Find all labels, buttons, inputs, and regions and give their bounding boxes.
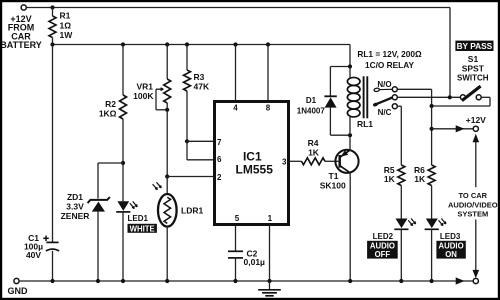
svg-text:D1: D1 [306,96,317,105]
svg-text:1W: 1W [60,30,74,40]
wire [52,251,54,281]
svg-text:R2: R2 [105,99,116,109]
wire pin1 [269,226,271,281]
svg-text:1KΩ: 1KΩ [99,109,117,119]
junction ground bus [165,279,169,283]
wire [431,106,433,165]
capacitor C2 [228,248,265,281]
wire [98,162,123,164]
wire pin4 [235,45,237,101]
svg-text:100K: 100K [133,91,154,101]
junction ground bus [267,279,271,283]
svg-text:1K: 1K [384,174,396,184]
node R2/ZD1/LED1 [121,161,125,165]
svg-text:4: 4 [233,104,238,113]
junction ground bus [233,279,237,283]
svg-text:LED3: LED3 [440,232,461,241]
resistor R4 [302,138,339,165]
node coil bottom [348,133,352,137]
svg-text:1K: 1K [414,174,426,184]
junction ground bus [121,279,125,283]
node switch feed [448,95,452,99]
svg-text:SYSTEM: SYSTEM [457,209,488,218]
svg-text:RL1: RL1 [357,119,373,129]
wire [397,96,460,98]
node rail corner R1 [50,42,54,46]
resistor R3 [184,45,210,142]
svg-text:TO CAR: TO CAR [458,191,487,200]
svg-text:ZD1: ZD1 [67,192,83,202]
node pin2/LDR [165,174,169,178]
svg-text:OFF: OFF [375,250,391,259]
terminal GND output [473,278,478,283]
wire [400,106,402,165]
svg-text:LED2: LED2 [373,232,394,241]
svg-text:BY PASS: BY PASS [457,41,493,51]
svg-text:IC1: IC1 [243,150,262,164]
svg-text:ZENER: ZENER [61,211,90,221]
svg-text:VR1: VR1 [136,81,153,91]
svg-text:6: 6 [217,155,222,164]
svg-text:RL1 = 12V, 200Ω: RL1 = 12V, 200Ω [357,49,422,59]
resistor R5 [384,165,405,219]
relay contact N/O [374,80,398,92]
wire [97,163,99,199]
wire [481,96,490,98]
svg-text:N/O: N/O [377,80,391,89]
relay pole lever [372,95,397,107]
svg-text:1N4007: 1N4007 [297,107,326,116]
svg-text:+12V: +12V [466,115,486,125]
node rail/R3 [185,42,189,46]
svg-text:R3: R3 [194,72,205,82]
wire [52,45,54,243]
svg-text:1: 1 [268,214,273,223]
junction ground bus [50,279,54,283]
svg-text:LM555: LM555 [236,163,274,177]
svg-text:SWITCH: SWITCH [457,74,489,83]
node rail/R2 [121,42,125,46]
svg-text:0,01µ: 0,01µ [244,257,266,267]
wire pin6 [187,159,213,161]
svg-text:SPST: SPST [462,63,485,73]
to car audio/video system [448,134,498,278]
svg-text:3.3V: 3.3V [66,201,84,211]
wire [431,89,433,106]
LED LED3 [425,219,466,282]
resistor R2 [99,45,127,164]
svg-text:LDR1: LDR1 [181,205,203,215]
svg-text:1C/O RELAY: 1C/O RELAY [365,60,414,70]
switch S1 [455,41,493,101]
terminal GND [8,278,29,295]
zener diode ZD1 [61,192,110,281]
wire [186,141,188,160]
LED LED2 [367,219,416,282]
op-amp timer IC U1 LM555 [215,102,289,225]
wire [349,45,351,67]
junction ground bus [399,279,403,283]
wire pin8 [267,45,269,101]
node +12V out tap [430,127,434,131]
node coil top [348,64,352,68]
svg-text:BATTERY: BATTERY [0,40,42,50]
junction ground bus [96,279,100,283]
svg-text:7: 7 [217,138,222,147]
relay value label [357,49,422,70]
capacitor C1 [24,233,59,260]
svg-text:LED1: LED1 [128,214,149,223]
svg-text:GND: GND [8,286,29,296]
relay coil RL1 [347,67,373,136]
LED LED1 [116,163,157,281]
svg-text:40V: 40V [26,250,41,260]
ground [258,281,281,296]
terminal +12V output [432,115,487,132]
wire [397,88,431,90]
wire ground bus [19,277,473,284]
diode D1 [297,67,350,136]
svg-text:3: 3 [282,157,287,166]
svg-text:8: 8 [266,104,271,113]
node top bus / R1 tap [50,5,54,9]
svg-text:R1: R1 [60,11,71,21]
wire [489,97,491,106]
svg-text:2: 2 [217,173,222,182]
wire [166,110,168,177]
node rail/VR1 [165,42,169,46]
wire pin3 [290,160,302,162]
LDR LDR1 [153,177,204,282]
wire [449,8,451,98]
wire pin5 [235,226,237,251]
svg-text:SK100: SK100 [320,180,346,190]
wire pin2 [167,176,213,178]
wire [53,44,351,46]
svg-text:WHITE: WHITE [130,224,155,233]
node pin7/pin6 [185,139,189,143]
node VR1 wiper [165,108,169,112]
node bypass return [430,104,434,108]
transistor T1 [320,135,359,281]
wire [26,7,450,9]
wire [397,105,401,107]
svg-text:1Ω: 1Ω [60,20,72,30]
terminal +12V battery input [0,5,42,50]
resistor R6 [414,165,435,219]
wire pin7 [187,140,213,142]
resistor R1 [49,8,73,45]
potentiometer VR1 [133,45,171,111]
node rail/pin8 [266,42,270,46]
svg-text:1K: 1K [308,147,320,157]
junction ground bus [348,279,352,283]
svg-text:ON: ON [445,250,457,259]
svg-text:N/C: N/C [378,108,392,117]
svg-text:47K: 47K [194,82,210,92]
svg-text:T1: T1 [329,171,339,181]
wire [432,105,490,107]
junction ground bus [430,279,434,283]
relay contact N/C [378,104,398,118]
node rail/pin4 [233,42,237,46]
svg-text:5: 5 [235,214,240,223]
svg-text:AUDIO/VIDEO: AUDIO/VIDEO [448,200,498,209]
